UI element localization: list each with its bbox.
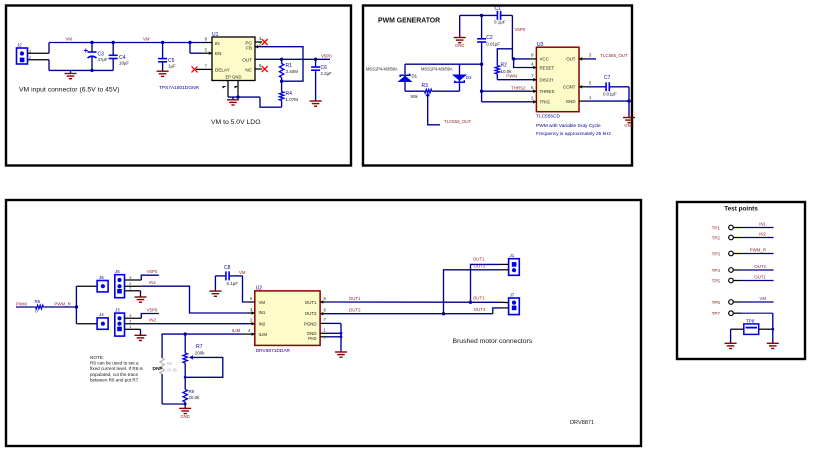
svg-text:200k: 200k (195, 351, 205, 356)
svg-text:6: 6 (531, 85, 534, 90)
svg-text:6: 6 (259, 63, 262, 68)
wire J3 pin1 down to gnd (140, 329, 142, 335)
junction wiper/R8 (184, 376, 187, 379)
wire PGND/GND/PAD to ground (327, 322, 341, 324)
svg-text:NC: NC (245, 67, 252, 72)
wire C8 left lead (215, 275, 226, 277)
pin 3 OUT stub (579, 58, 586, 60)
svg-text:IN: IN (215, 41, 220, 46)
wire J1 pin stub bottom (500, 269, 509, 271)
svg-text:MSS1P4-M3/89A: MSS1P4-M3/89A (366, 66, 398, 71)
wire J5 pin1 down to gnd (140, 291, 142, 297)
svg-text:V5P0: V5P0 (147, 308, 158, 313)
svg-text:EN: EN (215, 51, 221, 56)
pin 6 OUT1 stub (320, 301, 327, 303)
svg-text:IN1: IN1 (149, 280, 156, 285)
wire gnd vertical (340, 323, 342, 352)
svg-text:OUT1: OUT1 (349, 296, 361, 301)
pin 1 stub J5 (125, 290, 141, 292)
svg-text:TP4: TP4 (712, 268, 721, 273)
wire diode loop right (459, 64, 461, 75)
wire OUT1 net (327, 301, 500, 303)
svg-text:TPS7A1601DGNR: TPS7A1601DGNR (159, 85, 200, 91)
wire C8 right lead (229, 275, 242, 277)
svg-text:20.0k: 20.0k (189, 395, 201, 400)
svg-text:IN1: IN1 (259, 310, 266, 315)
wire J1 pin stub top (500, 263, 509, 265)
svg-text:THRES: THRES (540, 89, 555, 94)
svg-text:DELAY: DELAY (215, 67, 230, 72)
pin 3 stub J3 (125, 317, 142, 319)
capacitor C4 plates (109, 55, 118, 58)
resistor R3 zigzag (425, 89, 432, 93)
svg-text:OUT2: OUT2 (754, 264, 766, 269)
wire R5 to PWM_R (43, 306, 76, 308)
svg-text:EP GND: EP GND (226, 75, 242, 80)
svg-text:8: 8 (205, 37, 208, 42)
svg-text:R6 can be used to set a: R6 can be used to set a (90, 361, 139, 366)
ground (J5) (135, 297, 147, 302)
svg-text:VM: VM (259, 300, 266, 305)
pin stub J4 (76, 323, 97, 325)
svg-text:CONT: CONT (563, 85, 576, 90)
wire U1 EP/GND pins down (227, 81, 229, 97)
pin 9 PAD stub (320, 336, 327, 338)
svg-text:DRV8871: DRV8871 (570, 420, 594, 426)
pin 6 NC stub (255, 68, 262, 70)
svg-text:VM: VM (66, 37, 73, 42)
ground (C8) (209, 291, 221, 296)
wire DISCH / node PWM (497, 79, 529, 81)
svg-text:R8: R8 (189, 389, 195, 394)
ground (ILIM divider) (179, 408, 191, 413)
wire TRIG (482, 101, 530, 103)
svg-text:NOTE:: NOTE: (90, 355, 104, 360)
resistor R4 zigzag (279, 92, 283, 101)
wire J3 pin3 to V5P0 (141, 314, 159, 319)
svg-text:47µF: 47µF (98, 57, 108, 62)
sheet border: PWM generator block (363, 6, 632, 166)
svg-text:50k: 50k (411, 94, 419, 99)
svg-text:OUT: OUT (242, 57, 252, 62)
wire OUT2 branch to J1 (444, 270, 501, 314)
pin 4 ILIM stub (243, 333, 255, 335)
svg-text:TP6: TP6 (712, 300, 721, 305)
ground (right, test points) (767, 343, 779, 348)
pin 7 DELAY stub (196, 68, 212, 70)
svg-text:0.1µF: 0.1µF (494, 20, 506, 25)
wire to right ground (772, 329, 774, 343)
junction C3 bottom (90, 69, 93, 72)
pin 8 IN stub (202, 42, 212, 44)
wire J3 pin2 IN2 to U2 (141, 323, 247, 325)
wire C2 bottom / THRES-TRIG vertical (481, 42, 483, 102)
wire OUT2 net (327, 313, 493, 315)
wire gnd stub (70, 70, 72, 73)
wire gnd tie (228, 96, 260, 98)
svg-text:7: 7 (531, 74, 534, 79)
svg-text:PAD: PAD (308, 336, 316, 341)
svg-text:OUT2: OUT2 (305, 311, 317, 316)
svg-text:VM: VM (239, 270, 246, 275)
svg-text:7: 7 (205, 64, 208, 69)
junction PWM_R split (75, 305, 78, 308)
svg-text:J1: J1 (510, 253, 515, 258)
pin 8 VCC stub (530, 58, 537, 60)
wire R7 wiper loop (185, 357, 223, 377)
svg-text:0.01µF: 0.01µF (486, 42, 500, 47)
svg-text:8: 8 (324, 308, 327, 313)
svg-text:Brushed motor connectors: Brushed motor connectors (453, 338, 533, 345)
svg-text:TLC555CD: TLC555CD (536, 114, 561, 120)
pin 1 stub J3 (125, 328, 141, 330)
wire C8 to gnd (214, 276, 216, 291)
wire PWM_R vertical (75, 286, 77, 324)
pin 1 GND stub (320, 332, 327, 334)
svg-text:VM input connector (6.5V to 45: VM input connector (6.5V to 45V) (19, 87, 120, 94)
wire to left ground (730, 329, 732, 343)
wire VM rail top (49, 42, 202, 44)
ground (U1) (227, 100, 239, 105)
svg-text:PWM with Variable Duty Cycle: PWM with Variable Duty Cycle (536, 123, 601, 129)
svg-text:R7: R7 (196, 344, 203, 350)
svg-text:TP1: TP1 (712, 225, 721, 230)
svg-text:1: 1 (129, 287, 131, 291)
svg-text:8: 8 (531, 53, 534, 58)
wire VM to U2 (243, 276, 248, 302)
no-connect X on DELAY (192, 66, 198, 72)
pin 1 GND stub (579, 100, 586, 102)
svg-text:OUT1: OUT1 (473, 256, 485, 261)
wire TP4 (741, 269, 774, 271)
svg-text:9: 9 (324, 336, 326, 340)
svg-text:OUT1: OUT1 (473, 295, 485, 300)
svg-text:4: 4 (531, 61, 534, 66)
junction OUT/C6 (314, 58, 317, 61)
svg-text:V5P0: V5P0 (515, 27, 526, 32)
ground symbol right (623, 118, 635, 123)
junction C2 top (480, 14, 483, 17)
svg-text:1: 1 (129, 325, 131, 329)
ground (C5) (157, 71, 169, 76)
wire diode network top (405, 63, 482, 65)
svg-text:V5P0: V5P0 (321, 53, 332, 58)
junction VCC/RESET (512, 57, 515, 60)
sheet border: test points block (677, 202, 805, 359)
wire OUT2 jog to J7 (493, 308, 500, 314)
pin 3 stub J5 (125, 279, 142, 281)
svg-text:C8: C8 (224, 265, 231, 271)
wire gnd stub U1 (232, 97, 234, 100)
wire J2 pin1 to VM bus (28, 52, 50, 54)
svg-text:D1: D1 (412, 74, 418, 79)
wire R7 to R8 (184, 363, 186, 389)
pin 4 RESET stub (530, 67, 537, 69)
svg-text:3: 3 (259, 36, 262, 41)
wire R7 top lead (184, 334, 186, 353)
pin 3 IN1 stub (247, 312, 255, 314)
svg-text:J5: J5 (115, 269, 120, 274)
junction PAD tie (340, 335, 343, 338)
svg-text:OUT2: OUT2 (474, 307, 486, 312)
resistor R7 zigzag (183, 353, 187, 363)
svg-text:4: 4 (248, 328, 251, 333)
svg-text:2.2µF: 2.2µF (321, 71, 333, 76)
wire top rail to C1 (460, 14, 498, 16)
svg-text:IN2: IN2 (259, 322, 266, 327)
svg-text:PWM_R: PWM_R (54, 301, 70, 306)
wire V5P0 to VCC (512, 15, 529, 59)
svg-text:1µF: 1µF (168, 63, 176, 68)
svg-text:PWM: PWM (506, 74, 517, 79)
svg-text:TP3: TP3 (712, 251, 721, 256)
wire PWM to R5 (16, 306, 36, 308)
junction TP7/TP8 (771, 328, 774, 331)
ground symbol top (454, 38, 466, 43)
wire RESET loop (514, 59, 530, 68)
svg-text:J3: J3 (115, 307, 120, 312)
svg-text:GND: GND (566, 99, 576, 104)
pin 5 EN stub (202, 52, 212, 54)
wire C1 to V5P0 drop (501, 14, 513, 16)
svg-text:1.07M: 1.07M (286, 97, 299, 102)
pin 5 VM stub (247, 301, 255, 303)
junction OUT1 split (469, 301, 472, 304)
ground (left, test points) (725, 343, 737, 348)
ground (U2) (335, 352, 347, 357)
pin 2 stub J3 (125, 323, 142, 325)
ground (C6) (310, 101, 322, 106)
wire ILIM net (162, 334, 243, 358)
capacitor C6 plates (311, 67, 320, 70)
potentiometer R3 50k (in THRES rail) (405, 90, 425, 92)
svg-text:5: 5 (250, 296, 253, 301)
capacitor C6 2.2uF (315, 59, 317, 67)
svg-text:C1: C1 (495, 6, 502, 12)
svg-text:10µF: 10µF (119, 60, 129, 65)
capacitor C4 10uF (112, 43, 114, 56)
pin 2 TRIG stub (530, 101, 537, 103)
wire J7 pin stub top (500, 301, 509, 303)
svg-text:FB: FB (246, 46, 252, 51)
pin 7 PGND stub (320, 322, 327, 324)
ground (J3) (135, 335, 147, 340)
wire diode loop left (404, 64, 406, 74)
junction OUT2 split (442, 312, 445, 315)
svg-text:TP5: TP5 (712, 278, 721, 283)
svg-text:1: 1 (589, 95, 592, 100)
resistor R8 zigzag (183, 389, 187, 402)
svg-text:Frequency is approximately 25: Frequency is approximately 25 kHz (536, 131, 612, 137)
svg-text:Test points: Test points (724, 206, 758, 213)
svg-text:OUT1: OUT1 (305, 300, 317, 305)
wire vertical J2 pin2 down (48, 60, 50, 71)
pin 8 OUT2 stub (320, 313, 327, 315)
svg-text:GND: GND (455, 43, 464, 48)
junction R8/gnd (184, 403, 187, 406)
svg-text:5: 5 (205, 47, 208, 52)
svg-text:ILIM: ILIM (259, 332, 268, 337)
wire ground return bottom (49, 69, 113, 71)
wire J5 pin3 to V5P0 (141, 275, 159, 280)
wire TP3 (741, 253, 774, 255)
svg-text:V5P0: V5P0 (147, 269, 158, 274)
pin 6 THRES stub (530, 90, 537, 92)
svg-text:VCC: VCC (540, 57, 549, 62)
resistor R2 zigzag (495, 66, 499, 75)
R3 wiper arrow (426, 92, 430, 96)
pin 3 PG stub (255, 41, 262, 43)
svg-text:R2: R2 (501, 62, 508, 68)
wire vertical J2 pin1 up (48, 43, 50, 54)
junction EP/GND tie (236, 95, 239, 98)
svg-text:J7: J7 (510, 292, 515, 297)
svg-text:20.0k: 20.0k (167, 367, 179, 372)
resistor R4 1.07M (281, 81, 283, 91)
wire OUT1 branch to J1 (471, 264, 501, 302)
svg-text:D2: D2 (466, 75, 472, 80)
svg-text:TP2: TP2 (712, 235, 721, 240)
wire C7 right (609, 86, 629, 88)
svg-text:R6: R6 (167, 361, 173, 366)
svg-text:R3: R3 (422, 83, 429, 89)
svg-text:TLC555_OUT: TLC555_OUT (600, 53, 628, 58)
wire CONT to GND net (628, 87, 630, 117)
svg-text:J4: J4 (99, 312, 104, 317)
pin 9 EP mark (223, 86, 227, 88)
svg-text:0: 0 (35, 309, 38, 314)
svg-text:IN2: IN2 (759, 231, 766, 236)
junction GND tie (340, 332, 343, 335)
svg-text:ILIM: ILIM (232, 328, 241, 333)
junction diode rail (480, 62, 483, 65)
wire R2 bottom lead (496, 74, 498, 80)
wire C2 top lead (481, 15, 483, 38)
junction VM/EN (188, 41, 191, 44)
wire R2 top lead (497, 49, 512, 66)
capacitor C8 plates (226, 271, 229, 280)
wire U1 OUT rail V5P0 (255, 58, 330, 60)
capacitor C3 47uF (polarized) (91, 43, 93, 53)
wire TP6 (741, 301, 774, 303)
svg-text:fixed current level. If R6 is: fixed current level. If R6 is (90, 366, 144, 371)
svg-text:3: 3 (129, 276, 131, 280)
svg-text:C7: C7 (604, 75, 611, 81)
svg-text:MSS1P4-M3/89A: MSS1P4-M3/89A (421, 66, 453, 71)
svg-text:VM to 5.0V LDO: VM to 5.0V LDO (211, 119, 261, 126)
wire TP8 right lead (759, 328, 773, 330)
resistor R6 20.0k DNP (grey, vertical) (160, 358, 164, 374)
svg-text:0.1µF: 0.1µF (227, 281, 239, 286)
svg-text:2: 2 (250, 318, 253, 323)
resistor R1 zigzag (279, 64, 283, 78)
svg-text:3: 3 (589, 53, 592, 58)
ground (input section) (65, 74, 77, 79)
svg-text:TP7: TP7 (712, 311, 721, 316)
capacitor C1 plates (497, 11, 500, 20)
R7 wiper arrow (189, 355, 193, 359)
capacitor C7 plates (606, 82, 609, 91)
svg-text:J2: J2 (17, 43, 22, 48)
resistor R5 zigzag (36, 305, 44, 309)
no-connect X on PG (262, 39, 268, 45)
svg-text:OUT1: OUT1 (754, 274, 766, 279)
svg-text:TP8: TP8 (746, 318, 755, 323)
wire R6 bottom lead (161, 374, 163, 404)
junction VM/C5 (161, 41, 164, 44)
svg-text:GND: GND (624, 123, 633, 128)
junction ILIM/R7 (184, 332, 187, 335)
sheet border: VM input / LDO block (6, 6, 351, 166)
svg-text:0.01µF: 0.01µF (603, 92, 617, 97)
wire EN branch (189, 43, 191, 54)
svg-text:7: 7 (324, 317, 327, 322)
svg-text:3: 3 (129, 314, 131, 318)
wire TP8 left lead (731, 328, 744, 330)
junction VM/C4 (112, 41, 115, 44)
svg-text:OUT2: OUT2 (349, 307, 361, 312)
svg-text:C2: C2 (486, 35, 493, 41)
wire R4 bottom return (260, 97, 282, 107)
sheet border: DRV8871 block (6, 200, 641, 446)
capacitor C5 plates (158, 59, 167, 62)
diode D1 MSS1P4-M3/89A (cathode up) (400, 74, 411, 82)
capacitor C5 1uF (162, 43, 164, 59)
wire TP1 (741, 227, 774, 229)
svg-text:between R6 and pot R7: between R6 and pot R7 (90, 377, 139, 382)
junction OUT/R1 (280, 58, 283, 61)
svg-text:VM: VM (143, 37, 150, 42)
svg-text:R5: R5 (35, 299, 41, 304)
junction GND/C7 (627, 99, 630, 102)
svg-text:J6: J6 (99, 275, 104, 280)
wire DNP bottom tie (162, 403, 185, 405)
svg-text:5: 5 (589, 81, 592, 86)
pin stub J6 (76, 285, 97, 287)
svg-text:DISCH: DISCH (540, 78, 554, 83)
capacitor C2 plates (477, 39, 486, 42)
wire TP7 to TP8 (772, 313, 774, 329)
wire R8 bottom lead (184, 402, 186, 408)
junction VM/C3 (90, 41, 93, 44)
wire TP2 (741, 237, 774, 239)
wire gnd drop (459, 15, 461, 37)
svg-text:PGND: PGND (304, 321, 317, 326)
pin 2 IN2 stub (247, 323, 255, 325)
svg-text:DNP: DNP (153, 366, 164, 372)
wire J2 pin2 to GND loop (28, 59, 50, 61)
resistor R1 3.40M (281, 59, 283, 63)
svg-text:OUT2: OUT2 (474, 264, 486, 269)
pin 4 GND mark (235, 86, 239, 88)
junction THRES (480, 90, 483, 93)
svg-text:1: 1 (324, 327, 327, 332)
svg-text:DRV8871DDAR: DRV8871DDAR (256, 348, 291, 354)
pin 2 stub J5 (125, 285, 142, 287)
svg-text:OUT: OUT (566, 57, 576, 62)
svg-text:PWM_R: PWM_R (750, 247, 766, 252)
svg-text:IN1: IN1 (759, 221, 766, 226)
no-connect X on NC (262, 66, 268, 72)
junction R1/R4/FB (280, 80, 283, 83)
wire TP7 (741, 312, 773, 314)
svg-text:PWM: PWM (16, 301, 27, 306)
svg-text:3.40M: 3.40M (286, 69, 299, 74)
diode D2 MSS1P4-M3/89A (cathode down) (454, 75, 465, 82)
svg-text:2: 2 (129, 320, 131, 324)
svg-text:RESET: RESET (540, 65, 555, 70)
svg-text:TRIG: TRIG (540, 100, 551, 105)
